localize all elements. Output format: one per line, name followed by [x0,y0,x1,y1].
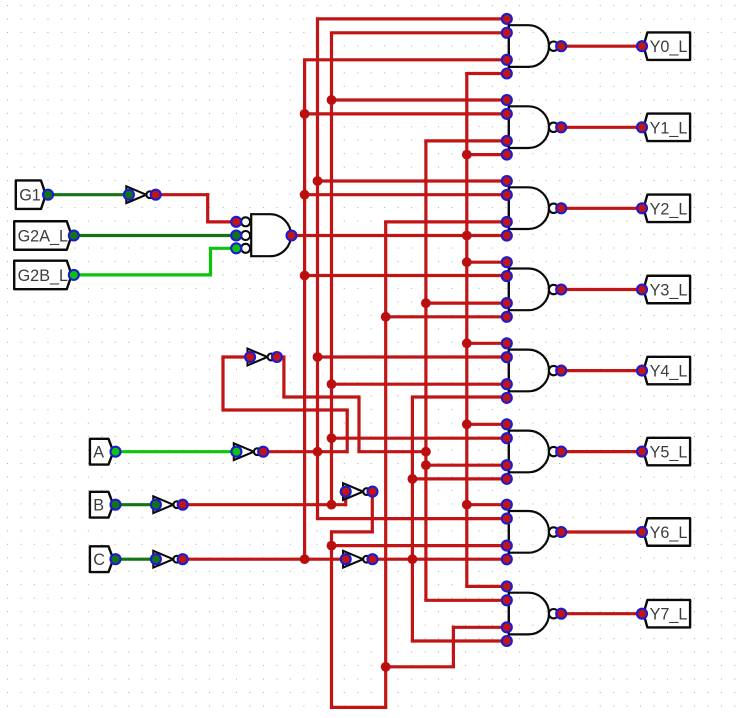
wire A: drop x283.9 [282,355,285,397]
pin N5 (nB->B).in [341,487,351,497]
pin U2.in1 [502,14,512,24]
pin G1.out [43,190,53,200]
inverter N7 (nC->C) [341,551,378,568]
wire B to U8.in3 [332,544,507,547]
pin U8.out [556,527,566,537]
pin U9.in3 [502,622,512,632]
pin Y0_L.in [637,41,647,51]
junction B/U9.in3 [381,662,391,672]
wire U4.out to Y2_L [561,207,642,210]
wire nC to U4.in2 [305,193,507,196]
pin U7.in1 [502,419,512,429]
pin U9.in2 [502,595,512,605]
output label Y3_L [637,276,690,304]
wire U8.out to Y6_L [561,530,642,533]
NAND gate U7 (Y5) [502,419,566,484]
pin N2 (A->nA).out [258,447,268,457]
pin N2 (A->nA).in [231,447,241,457]
pin N1 (G1).out [151,190,161,200]
junction A/U7.in3 [421,460,431,470]
wire nA vertical bus [316,19,319,519]
wire A to inverter N2 [116,450,237,453]
pin U6.in4 [502,393,512,403]
wire nC to U5.in2 [305,274,507,277]
svg-text:C: C [93,551,105,569]
wire U7.out to Y5_L [561,450,642,453]
pin Y1_L.in [637,122,647,132]
wire EN to U8.in1 [467,503,507,506]
pin U4.out [556,203,566,213]
wire G2B_L horizontal [74,273,211,276]
wire nA drop at x223 [221,357,224,412]
pin U1.in3 [231,243,241,253]
wire B to U5.in4 [386,315,507,318]
svg-text:B: B [93,497,104,515]
svg-text:G2B_L: G2B_L [18,267,68,285]
wire nC: N6.out run to N7 [182,558,346,561]
pin N6 (C->nC).out [178,554,188,564]
pin N7 (nC->C).out [368,554,378,564]
wire nA to U6.in2 [318,355,507,358]
pin U4.in3 [502,217,512,227]
pin C.out [111,554,121,564]
pin U2.out [556,41,566,51]
pin U7.in2 [502,433,512,443]
inverter N1 (G1) [124,186,161,203]
NAND gate U6 (Y4) [502,338,566,403]
pin U9.out [556,609,566,619]
pin U1.in1 [231,217,241,227]
output label Y1_L [637,114,690,142]
output label Y0_L [637,32,690,60]
pin U9.in1 [502,581,512,591]
pin N3 (nA->A).in [245,352,255,362]
wire N1 to U1.in1 [206,220,236,223]
output label Y4_L [637,357,690,385]
pin U1.in2 [231,231,241,241]
wire nB to U6.in3 [332,383,507,386]
wire C to inverter N6 [116,558,156,561]
wire nB to U7.in2 [332,437,507,440]
pin N1 (G1).in [124,190,134,200]
wire N1 out horizontal [156,193,208,196]
pin U5.out [556,285,566,295]
NAND gate U8 (Y6) [502,500,566,565]
pin U8.in3 [502,541,512,551]
pin U3.in4 [502,150,512,160]
wire B: left leg down [330,530,333,707]
pin U4.in1 [502,176,512,186]
wire U2.out to Y0_L [561,45,642,48]
output label Y6_L [637,518,690,546]
pin U1.out [287,231,297,241]
wire nA to U2.in1 [316,17,507,20]
wire G2A_L to U1.in2 [74,234,236,237]
svg-text:Y5_L: Y5_L [650,444,688,462]
svg-text:G2A_L: G2A_L [18,228,68,246]
wire nA to U4.in1 [318,179,507,182]
input label B [90,492,121,518]
junction nB/U3.in1 [327,95,337,105]
wire G2B_L to U1.in3 [209,247,236,250]
junction nC/U4.in2 [300,190,310,200]
junction C source [408,554,418,564]
output label Y2_L [637,195,690,223]
wire U3.out to Y1_L [561,126,642,129]
pin G2B_L.out [69,270,79,280]
wire EN: U1.out to U4.in4 [292,234,507,237]
svg-text:Y2_L: Y2_L [650,200,688,218]
wire C: N7.out run to U9.in4 [371,558,507,561]
pin G2A_L.out [69,231,79,241]
junction nB source [327,500,337,510]
input label G2B_L [14,261,79,290]
junction nB/U6.in3 [327,379,337,389]
wire nC to U2.in3 [303,58,507,61]
wire A: N3.out stub [277,355,284,358]
pin Y6_L.in [637,527,647,537]
pin U8.in2 [502,514,512,524]
pin U6.in1 [502,338,512,348]
junction A/U5.in3 [421,298,431,308]
junction nA source [313,447,323,457]
junction EN/U5.in1 [462,257,472,267]
wire nB to U3.in1 [332,98,507,101]
junction B/U5.in4 [381,312,391,322]
wire A: drop x359 [357,395,360,451]
NAND gate U3 (Y1) [502,95,566,160]
pin U3.in1 [502,95,512,105]
wire N1 out drop [206,193,209,222]
pin A.out [111,447,121,457]
junction nC source [300,554,310,564]
wire B branch bottom [386,665,455,668]
input label A [90,439,121,465]
wire G2B_L riser [209,248,212,276]
inverter N4 (B->nB) [151,496,188,513]
pin N4 (B->nB).out [178,500,188,510]
wire B to inverter N4 [116,503,156,506]
pin U2.in2 [502,28,512,38]
wire B: jog bottom [332,530,374,533]
pin U6.in3 [502,379,512,389]
wire nC vertical bus [303,60,306,559]
pin U9.in4 [502,636,512,646]
wire EN vertical bus [465,74,468,587]
pin U8.in4 [502,554,512,564]
junction nC/U3.in2 [300,109,310,119]
wire nA top run to N3 [223,408,349,411]
pin U7.out [556,447,566,457]
pin N4 (B->nB).in [151,500,161,510]
wire A vertical bus [424,141,427,600]
wire U6.out to Y4_L [561,369,642,372]
junction EN/U4.in4 [462,231,472,241]
wire A: row run to bus [357,450,426,453]
wire B to U4.in3 [384,220,507,223]
pin U5.in1 [502,257,512,267]
NAND gate U4 (Y2) [502,176,566,241]
svg-text:Y3_L: Y3_L [650,282,688,300]
input label G2A_L [14,221,79,250]
junction A source [421,447,431,457]
wire U9.out to Y7_L [561,612,642,615]
wire EN to U5.in1 [467,261,507,264]
pin U2.in4 [502,69,512,79]
pin U4.in2 [502,190,512,200]
svg-text:Y6_L: Y6_L [650,524,688,542]
wire nA: N2.out run [263,450,347,453]
svg-text:Y1_L: Y1_L [650,119,688,137]
wire A to U7.in3 [426,464,507,467]
svg-text:G1: G1 [19,187,41,205]
junction nC/U5.in2 [300,271,310,281]
NAND gate U5 (Y3) [502,257,566,322]
wire nC to U3.in2 [305,112,507,115]
wire A to U3.in3 [424,139,507,142]
pin U4.in4 [502,231,512,241]
wire G1 to inverter N1 [48,193,129,196]
wire EN to U7.in1 [467,423,507,426]
pin N7 (nC->C).in [341,554,351,564]
pin N6 (C->nC).in [151,554,161,564]
wire A to U5.in3 [426,302,507,305]
pin B.out [111,500,121,510]
pin U5.in4 [502,312,512,322]
wire B: N5.out stub [371,490,372,493]
junction EN/U6.in1 [462,338,472,348]
pin U8.in1 [502,500,512,510]
pin U7.in3 [502,460,512,470]
pin Y7_L.in [637,609,647,619]
pin Y4_L.in [637,366,647,376]
svg-text:A: A [93,444,104,462]
junction nB/U7.in2 [327,433,337,443]
junction EN/U3.in4 [462,150,472,160]
inverter N2 (A->nA) [231,443,268,460]
pin U6.out [556,366,566,376]
wire C to U6.in4 [411,395,507,398]
wire A: mid run [282,395,359,398]
wire EN to U2.in4 [465,72,507,75]
wire EN to U3.in4 [467,153,507,156]
AND gate U1 (enable, inverted inputs) [231,214,296,256]
NAND gate U2 (Y0) [502,14,566,79]
svg-text:Y4_L: Y4_L [650,363,688,381]
pin U3.in2 [502,109,512,119]
wire B: U bottom [330,706,387,709]
wire nB to U2.in2 [330,31,507,34]
pin N3 (nA->A).out [272,352,282,362]
wire nA into N3 [221,355,250,358]
wire nB vertical bus [330,33,333,505]
pin U6.in2 [502,352,512,362]
output label Y5_L [637,438,690,466]
pin Y2_L.in [637,203,647,213]
wire B: drop x372.3 [371,490,374,532]
junction C/U7.in4 [408,474,418,484]
junction nA/U4.in1 [313,176,323,186]
junction nA/U6.in2 [313,352,323,362]
pin U5.in3 [502,298,512,308]
output label Y7_L [637,600,690,628]
wire A to U9.in2 [424,599,507,602]
pin U5.in2 [502,271,512,281]
junction EN/U8.in1 [462,500,472,510]
wire EN to U6.in1 [467,342,507,345]
pin Y5_L.in [637,447,647,457]
wire C to U7.in4 [412,477,506,480]
inverter N3 (nA->A) [245,349,282,366]
pin N5 (nB->B).out [368,487,378,497]
NAND gate U9 (Y7) [502,581,566,646]
pin U3.out [556,122,566,132]
wire nA riser to N3 feed [346,410,349,453]
wire EN to U9.in1 [465,585,507,588]
input label G1 [16,180,53,209]
pin U7.in4 [502,474,512,484]
wire B: main vertical bus [384,222,387,707]
wire nB riser to N5 [344,492,347,507]
svg-text:Y0_L: Y0_L [650,38,688,56]
inverter N6 (C->nC) [151,551,188,568]
svg-text:Y7_L: Y7_L [650,606,688,624]
junction EN/U7.in1 [462,419,472,429]
wire nA to U8.in2 [316,517,507,520]
pin U2.in3 [502,55,512,65]
inverter N5 (nB->B) [341,483,378,500]
pin Y3_L.in [637,285,647,295]
wire C vertical bus [411,397,414,641]
wire B to U9.in3 top [452,626,507,629]
wire B riser for U9.in3 [452,626,455,667]
wire nB: N4.out run [182,503,346,506]
pin U3.in3 [502,136,512,146]
wire U5.out to Y3_L [561,288,642,291]
junction B/U8.in3 [327,541,337,551]
wire C to U9.in4 [411,639,507,642]
input label C [90,546,121,572]
